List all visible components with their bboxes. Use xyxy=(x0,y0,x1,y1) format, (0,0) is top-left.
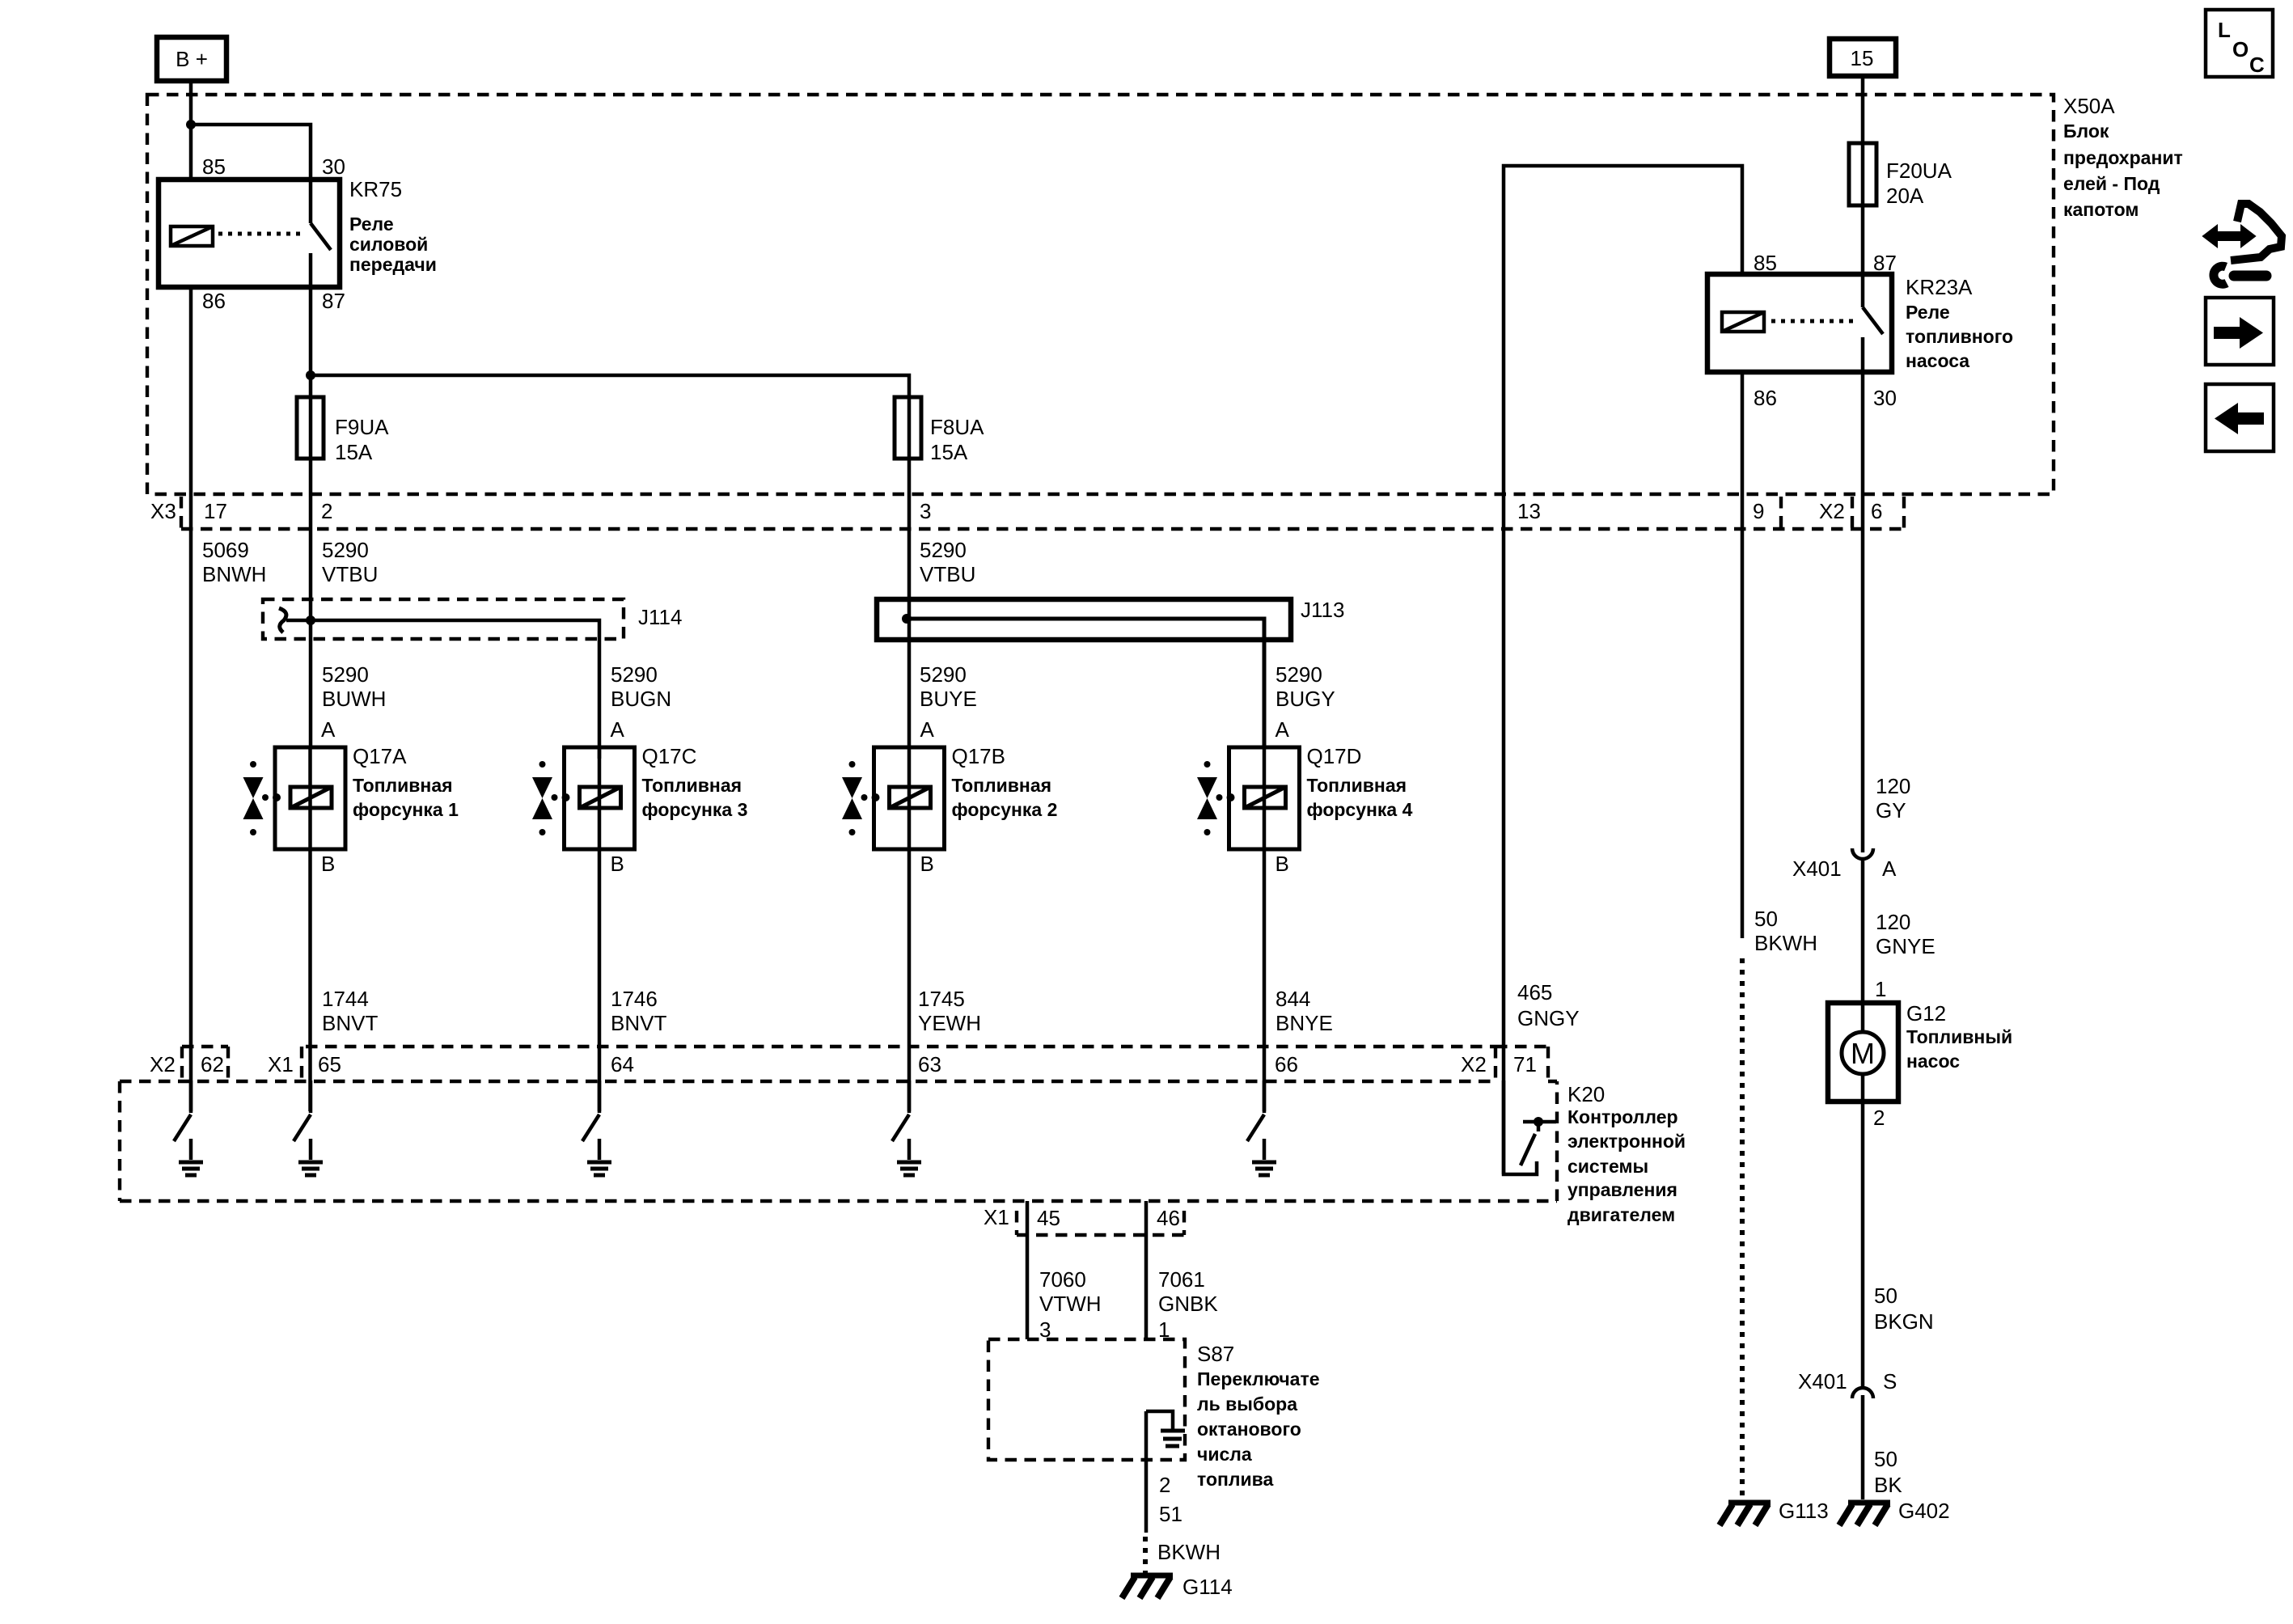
injector Q17C coil xyxy=(580,787,621,808)
svg-text:17: 17 xyxy=(204,499,227,523)
svg-text:86: 86 xyxy=(202,289,226,313)
wire KR75 pin 87 down xyxy=(309,287,313,620)
svg-text:120: 120 xyxy=(1876,774,1910,798)
injector Q17D labels xyxy=(1307,744,1413,820)
wire K20-71 to KR23A pin 85 xyxy=(1504,166,1742,1174)
svg-text:L: L xyxy=(2218,18,2231,42)
svg-text:5290: 5290 xyxy=(611,662,658,687)
svg-text:2: 2 xyxy=(321,499,332,523)
wire 51 BKWH labels xyxy=(1157,1502,1221,1564)
relay KR75 labels xyxy=(349,177,437,275)
wire 1745 YEWH labels xyxy=(918,987,981,1035)
svg-text:844: 844 xyxy=(1276,987,1310,1011)
svg-text:F9UA: F9UA xyxy=(335,415,389,439)
svg-text:85: 85 xyxy=(202,154,226,179)
svg-text:Топливный: Топливный xyxy=(1906,1026,2012,1047)
svg-text:Q17C: Q17C xyxy=(642,744,697,768)
X50A name text xyxy=(2063,121,2183,220)
svg-text:VTBU: VTBU xyxy=(920,562,975,586)
wire 120 GNYE to G12 xyxy=(1861,860,1865,1003)
svg-text:1745: 1745 xyxy=(918,987,965,1011)
wire 5290 BUYE labels xyxy=(920,662,977,711)
K20 driver switch at pin x=1563 xyxy=(1247,1081,1276,1175)
svg-text:капотом: капотом xyxy=(2063,199,2139,220)
wire K20-45 to S87-3 xyxy=(1026,1201,1030,1339)
svg-text:B +: B + xyxy=(176,47,208,71)
svg-text:двигателем: двигателем xyxy=(1567,1204,1675,1225)
node junction dot J114 xyxy=(306,615,315,625)
svg-text:O: O xyxy=(2232,37,2249,61)
injector Q17D nozzle symbol xyxy=(1197,761,1235,835)
wire 7060 VTWH labels xyxy=(1039,1267,1102,1316)
wire 5290 BUWH labels xyxy=(322,662,386,711)
svg-text:форсунка 1: форсунка 1 xyxy=(353,799,459,820)
svg-text:A: A xyxy=(321,717,336,742)
splice J114 dashed box xyxy=(263,599,624,639)
svg-text:X2: X2 xyxy=(1461,1052,1487,1076)
svg-text:86: 86 xyxy=(1754,386,1777,410)
svg-text:51: 51 xyxy=(1159,1502,1182,1526)
svg-text:G113: G113 xyxy=(1779,1499,1829,1523)
switch S87 dashed box xyxy=(988,1339,1185,1460)
svg-text:Q17D: Q17D xyxy=(1307,744,1362,768)
relay KR75 coil xyxy=(171,226,213,246)
injector Q17C nozzle symbol xyxy=(532,761,570,835)
splice J114 link wire xyxy=(286,620,599,759)
connector X401 pin S xyxy=(1798,1369,1897,1398)
wire Q17C B down xyxy=(598,849,602,1111)
svg-text:BUYE: BUYE xyxy=(920,687,977,711)
svg-text:BKWH: BKWH xyxy=(1157,1540,1221,1564)
svg-text:S87: S87 xyxy=(1197,1342,1234,1366)
K20 driver switch at pin x=384 xyxy=(294,1081,323,1175)
svg-text:KR23A: KR23A xyxy=(1906,275,1973,299)
wire 5069 BNWH down to K20 62 xyxy=(189,548,193,1111)
wire K20-46 to S87-1 xyxy=(1144,1201,1149,1339)
svg-text:F8UA: F8UA xyxy=(930,415,984,439)
svg-text:BNWH: BNWH xyxy=(202,562,266,586)
svg-text:насоса: насоса xyxy=(1906,350,1969,371)
svg-text:G402: G402 xyxy=(1898,1499,1950,1523)
svg-text:BUGY: BUGY xyxy=(1276,687,1335,711)
svg-text:BNVT: BNVT xyxy=(322,1011,378,1035)
relay KR23A labels xyxy=(1906,275,2013,371)
svg-text:числа: числа xyxy=(1197,1444,1252,1465)
K20 bottom pins 45 46 labels xyxy=(984,1205,1180,1230)
svg-text:X3: X3 xyxy=(150,499,176,523)
X3 connector row lower dashed line xyxy=(181,527,1904,531)
svg-text:X2: X2 xyxy=(150,1052,176,1076)
splice J113 box xyxy=(877,599,1291,640)
svg-text:Реле: Реле xyxy=(1906,302,1950,323)
node 15 box xyxy=(1830,39,1896,76)
injector Q17D box xyxy=(1229,747,1300,849)
relay KR75 switch xyxy=(311,180,331,287)
X3 row labels xyxy=(150,499,1882,523)
svg-text:15A: 15A xyxy=(930,440,968,464)
svg-text:форсунка 4: форсунка 4 xyxy=(1307,799,1413,820)
svg-text:Q17A: Q17A xyxy=(353,744,407,768)
wire 465 GNGY labels xyxy=(1517,980,1580,1030)
injector Q17B wire through xyxy=(907,747,912,849)
K20 pin row labels xyxy=(150,1052,1537,1076)
svg-text:K20: K20 xyxy=(1567,1082,1605,1106)
motor G12 fuel pump box xyxy=(1828,1003,1898,1102)
svg-text:64: 64 xyxy=(611,1052,634,1076)
wire Q17D B down xyxy=(1263,849,1267,1111)
svg-text:15A: 15A xyxy=(335,440,373,464)
ground G114 xyxy=(1122,1575,1173,1598)
injector Q17B box xyxy=(874,747,945,849)
svg-text:YEWH: YEWH xyxy=(918,1011,981,1035)
svg-text:Переключате: Переключате xyxy=(1197,1368,1320,1389)
K20 labels xyxy=(1567,1082,1686,1225)
relay KR75 pin labels xyxy=(202,154,345,313)
svg-text:системы: системы xyxy=(1567,1156,1648,1177)
svg-text:C: C xyxy=(2249,53,2265,77)
wire Q17A B down xyxy=(308,849,312,1111)
injector Q17B coil xyxy=(890,787,931,808)
injector Q17A box xyxy=(275,747,345,849)
svg-text:7060: 7060 xyxy=(1039,1267,1086,1292)
injector Q17A wire through xyxy=(308,747,312,849)
svg-text:J114: J114 xyxy=(638,605,682,629)
svg-text:GNYE: GNYE xyxy=(1876,934,1936,958)
svg-text:50: 50 xyxy=(1874,1447,1897,1471)
wire 1744 BNVT labels xyxy=(322,987,378,1035)
svg-text:30: 30 xyxy=(322,154,345,179)
svg-text:B: B xyxy=(611,852,624,876)
svg-text:A: A xyxy=(920,717,935,742)
wire 50 BK to G402 xyxy=(1861,1395,1865,1499)
wire 1746 BNVT labels xyxy=(611,987,666,1035)
svg-text:5290: 5290 xyxy=(920,538,967,562)
svg-text:G12: G12 xyxy=(1906,1001,1946,1026)
svg-text:15: 15 xyxy=(1851,46,1874,70)
relay KR75 coil-switch dotted link xyxy=(218,232,302,236)
svg-text:30: 30 xyxy=(1873,386,1897,410)
wire 5290 BUGN labels xyxy=(611,662,671,711)
pin 6 brackets xyxy=(1852,497,1904,529)
svg-text:ль выбора: ль выбора xyxy=(1197,1394,1297,1415)
connector X401 pin A xyxy=(1792,848,1897,881)
injector Q17A nozzle symbol xyxy=(243,761,281,835)
K20 ECM dashed boundary xyxy=(120,1047,1557,1235)
svg-text:октанового: октанового xyxy=(1197,1419,1301,1440)
left arrow box xyxy=(2206,384,2274,451)
injector Q17C labels xyxy=(642,744,748,820)
svg-text:VTBU: VTBU xyxy=(322,562,378,586)
svg-text:120: 120 xyxy=(1876,910,1910,934)
svg-text:GNGY: GNGY xyxy=(1517,1006,1580,1030)
svg-text:6: 6 xyxy=(1871,499,1882,523)
svg-text:GNBK: GNBK xyxy=(1158,1292,1218,1316)
svg-text:X1: X1 xyxy=(268,1052,294,1076)
svg-text:46: 46 xyxy=(1157,1206,1180,1230)
svg-text:Q17B: Q17B xyxy=(952,744,1006,768)
svg-text:87: 87 xyxy=(1873,251,1897,275)
K20 pin 71 switch xyxy=(1504,1081,1556,1174)
svg-text:X2: X2 xyxy=(1819,499,1845,523)
fuse F9UA xyxy=(297,397,389,464)
wire 50 BKGN labels xyxy=(1874,1284,1934,1334)
svg-text:465: 465 xyxy=(1517,980,1552,1004)
svg-text:VTWH: VTWH xyxy=(1039,1292,1102,1316)
wire G12-2 down to X401 S xyxy=(1861,1102,1865,1389)
svg-text:Контроллер: Контроллер xyxy=(1567,1106,1678,1127)
svg-text:3: 3 xyxy=(920,499,931,523)
svg-text:X50A: X50A xyxy=(2063,94,2115,118)
wire J113 down to Q17B xyxy=(907,619,912,747)
svg-text:1746: 1746 xyxy=(611,987,658,1011)
svg-text:5290: 5290 xyxy=(322,538,369,562)
svg-text:X1: X1 xyxy=(984,1205,1009,1229)
svg-text:BNVT: BNVT xyxy=(611,1011,666,1035)
svg-text:1: 1 xyxy=(1875,977,1886,1001)
svg-text:Топливная: Топливная xyxy=(353,775,453,796)
relay KR23A switch xyxy=(1863,274,1883,372)
svg-text:13: 13 xyxy=(1517,499,1541,523)
svg-text:X401: X401 xyxy=(1792,856,1842,881)
svg-text:B: B xyxy=(920,852,934,876)
svg-text:20A: 20A xyxy=(1886,184,1924,208)
svg-text:GY: GY xyxy=(1876,798,1906,823)
K20 driver switch at pin x=1124 xyxy=(892,1081,921,1175)
LOC reference box xyxy=(2206,10,2273,77)
svg-text:71: 71 xyxy=(1513,1052,1537,1076)
svg-text:KR75: KR75 xyxy=(349,177,402,201)
svg-text:A: A xyxy=(611,717,625,742)
splice J114 hook xyxy=(279,608,286,632)
svg-text:елей - Под: елей - Под xyxy=(2063,173,2160,194)
svg-text:Топливная: Топливная xyxy=(642,775,742,796)
svg-text:BNYE: BNYE xyxy=(1276,1011,1333,1035)
fuse F20UA xyxy=(1849,143,1952,208)
K20 driver switch at pin x=236 xyxy=(174,1081,203,1175)
switch S87 contact xyxy=(1146,1411,1185,1533)
svg-text:форсунка 3: форсунка 3 xyxy=(642,799,748,820)
node junction dot J113 xyxy=(902,614,912,624)
wire 50 BKWH dotted to G113 xyxy=(1740,958,1745,1498)
injector Q17B labels xyxy=(952,744,1058,820)
svg-text:B: B xyxy=(321,852,335,876)
wire 844 BNYE labels xyxy=(1276,987,1333,1035)
svg-text:5290: 5290 xyxy=(1276,662,1322,687)
fuse block X50A dashed box xyxy=(147,95,2054,494)
svg-text:предохранит: предохранит xyxy=(2063,147,2183,168)
svg-text:Блок: Блок xyxy=(2063,121,2109,142)
injector Q17D coil xyxy=(1245,787,1286,808)
svg-text:форсунка 2: форсунка 2 xyxy=(952,799,1058,820)
svg-text:66: 66 xyxy=(1275,1052,1298,1076)
wire KR75 pin 86 down to X3-17 xyxy=(189,287,193,548)
X3 bracket tick xyxy=(180,497,183,529)
svg-text:передачи: передачи xyxy=(349,254,437,275)
relay KR23A coil xyxy=(1722,312,1764,332)
relay KR23A coil-switch dotted link xyxy=(1771,319,1855,324)
svg-text:50: 50 xyxy=(1874,1284,1897,1308)
svg-text:2: 2 xyxy=(1159,1473,1170,1497)
svg-text:A: A xyxy=(1882,856,1897,881)
node B+ box xyxy=(157,37,226,81)
svg-text:45: 45 xyxy=(1037,1206,1060,1230)
svg-text:F20UA: F20UA xyxy=(1886,159,1952,183)
ground G113 xyxy=(1720,1503,1771,1525)
svg-text:электронной: электронной xyxy=(1567,1131,1686,1152)
wire 5290 VTBU labels (mid) xyxy=(920,538,975,586)
injector Q17A coil xyxy=(290,787,332,808)
svg-text:J113: J113 xyxy=(1301,598,1344,622)
svg-text:силовой: силовой xyxy=(349,234,428,255)
injector Q17C box xyxy=(565,747,635,849)
fuse F8UA xyxy=(895,397,984,464)
wire J114 down to Q17A xyxy=(309,620,313,747)
svg-text:B: B xyxy=(1276,852,1289,876)
svg-text:5290: 5290 xyxy=(322,662,369,687)
svg-text:топливного: топливного xyxy=(1906,326,2013,347)
svg-text:насос: насос xyxy=(1906,1051,1960,1072)
splice J113 link wire xyxy=(907,619,1264,747)
motor G12 labels xyxy=(1906,1001,2012,1072)
svg-text:2: 2 xyxy=(1873,1106,1885,1130)
wire KR23A-30 down to X401 A xyxy=(1861,372,1865,852)
wire 50 BK labels xyxy=(1874,1447,1902,1497)
injector Q17C wire through xyxy=(598,747,602,849)
svg-text:50: 50 xyxy=(1754,907,1778,931)
service icon squiggle with double arrow xyxy=(2203,204,2282,284)
node junction dot pin87 branch xyxy=(306,370,315,380)
ground G402 xyxy=(1839,1503,1890,1525)
node junction dot at B+ branch xyxy=(186,120,196,129)
wire F20UA feed from 15 xyxy=(1861,76,1865,274)
injector Q17A labels xyxy=(353,744,459,820)
svg-text:5290: 5290 xyxy=(920,662,967,687)
svg-text:1744: 1744 xyxy=(322,987,369,1011)
S87 pin labels xyxy=(1039,1317,1170,1342)
wire 50 BKWH labels xyxy=(1754,907,1817,955)
svg-text:управления: управления xyxy=(1567,1179,1677,1200)
wire B+ down into fuse block xyxy=(189,81,193,180)
svg-text:G114: G114 xyxy=(1182,1575,1233,1599)
injector Q17B nozzle symbol xyxy=(842,761,880,835)
wire KR23A-86 down xyxy=(1741,372,1745,938)
svg-text:A: A xyxy=(1276,717,1290,742)
right arrow box xyxy=(2206,298,2274,365)
relay KR23A pin labels xyxy=(1754,251,1897,410)
relay KR75 box xyxy=(159,180,340,287)
svg-text:62: 62 xyxy=(201,1052,224,1076)
wire branch to relay pin 30 xyxy=(191,125,311,180)
svg-text:BUGN: BUGN xyxy=(611,687,671,711)
wire 5290 BUGY labels xyxy=(1276,662,1335,711)
svg-text:Реле: Реле xyxy=(349,214,394,235)
svg-text:X401: X401 xyxy=(1798,1369,1847,1394)
wire 120 GY labels xyxy=(1876,774,1910,823)
svg-text:65: 65 xyxy=(318,1052,341,1076)
svg-text:5069: 5069 xyxy=(202,538,249,562)
svg-text:S: S xyxy=(1883,1369,1897,1394)
svg-text:топлива: топлива xyxy=(1197,1469,1273,1490)
relay KR23A box xyxy=(1707,274,1892,372)
svg-text:85: 85 xyxy=(1754,251,1777,275)
wire 7061 GNBK labels xyxy=(1158,1267,1218,1316)
svg-text:Топливная: Топливная xyxy=(1307,775,1407,796)
svg-text:BKGN: BKGN xyxy=(1874,1309,1934,1334)
svg-text:7061: 7061 xyxy=(1158,1267,1205,1292)
wire 120 GNYE labels xyxy=(1876,910,1936,958)
pin 9 bracket xyxy=(1779,497,1783,529)
svg-text:BUWH: BUWH xyxy=(322,687,386,711)
wire Q17B B down xyxy=(907,849,912,1111)
svg-text:87: 87 xyxy=(322,289,345,313)
wire branch to F8UA xyxy=(311,375,909,619)
wire S87-2 dotted to G114 xyxy=(1143,1537,1148,1573)
svg-text:9: 9 xyxy=(1753,499,1764,523)
svg-text:BKWH: BKWH xyxy=(1754,931,1817,955)
S87 labels xyxy=(1197,1342,1320,1490)
wire 5290 VTBU labels (left) xyxy=(322,538,378,586)
svg-text:M: M xyxy=(1851,1037,1875,1070)
svg-text:Топливная: Топливная xyxy=(952,775,1052,796)
K20 driver switch at pin x=741 xyxy=(582,1081,611,1175)
svg-text:63: 63 xyxy=(918,1052,941,1076)
svg-text:BK: BK xyxy=(1874,1473,1902,1497)
injector Q17D wire through xyxy=(1263,747,1267,849)
wire 5069 BNWH labels xyxy=(202,538,266,586)
